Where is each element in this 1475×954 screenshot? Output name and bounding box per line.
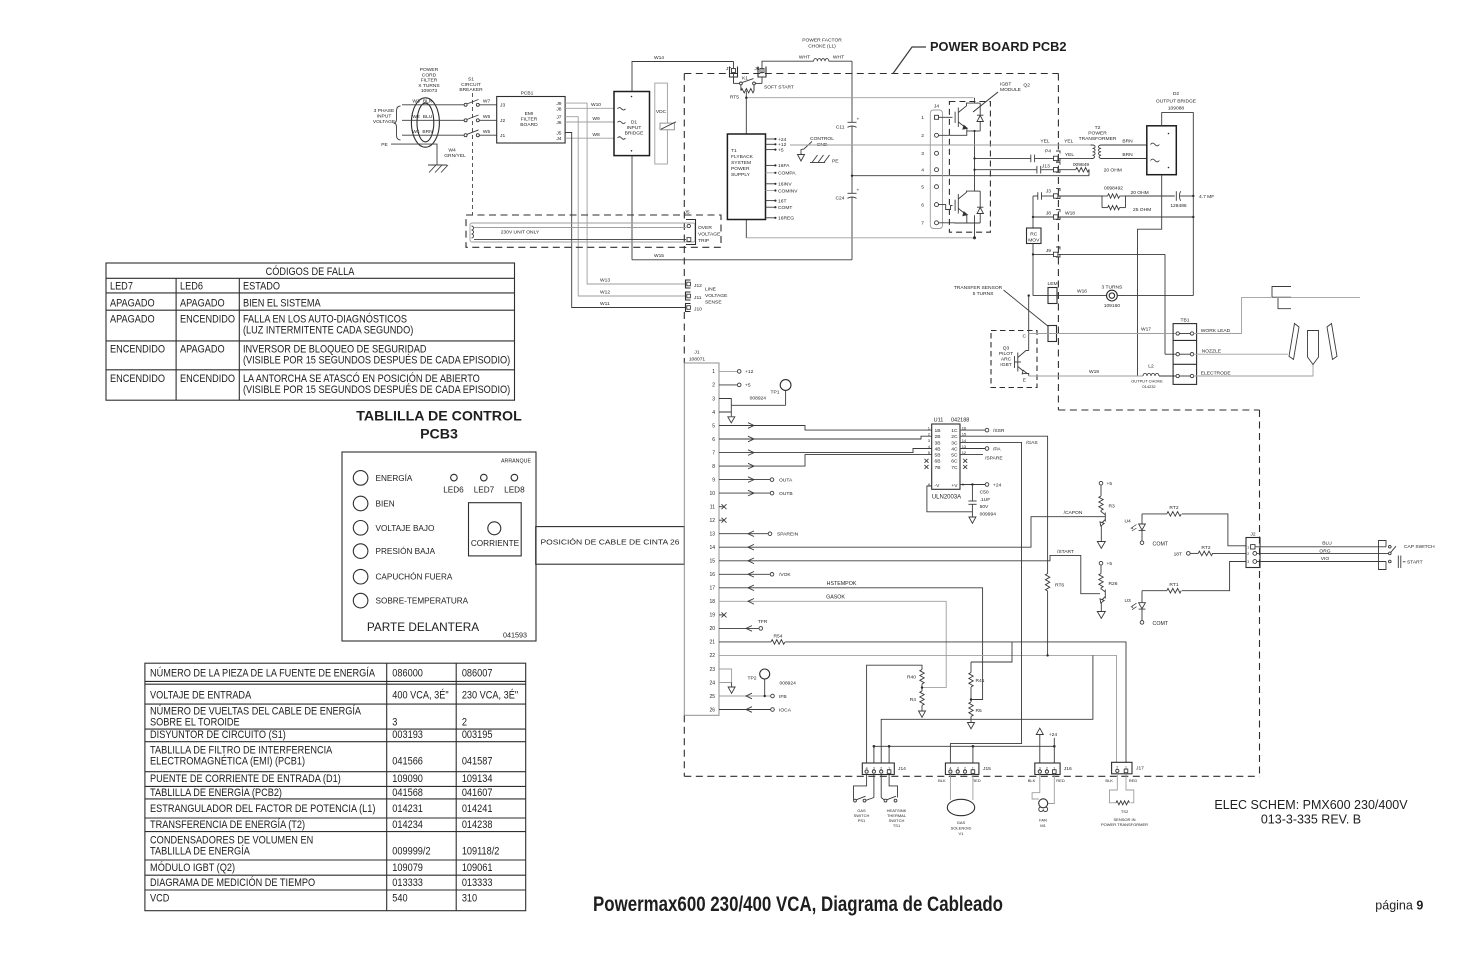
svg-text:VOLTAGE: VOLTAGE: [705, 293, 728, 299]
svg-text:R41: R41: [976, 678, 985, 684]
svg-text:16REG: 16REG: [778, 216, 794, 222]
svg-text:PILOT: PILOT: [999, 351, 1013, 357]
svg-text:GAS: GAS: [957, 820, 966, 825]
svg-text:W8: W8: [592, 132, 600, 138]
J1 pin26 IOCA: [719, 709, 771, 711]
svg-text:PE: PE: [381, 142, 388, 148]
svg-text:009849: 009849: [1073, 162, 1090, 168]
YEL wire T1 aux to T2 primary top: [790, 144, 1091, 146]
svg-text:BLK: BLK: [938, 778, 946, 783]
svg-text:14: 14: [709, 545, 715, 551]
svg-text:VOLTAGE: VOLTAGE: [698, 232, 721, 238]
J1 pin14 /CAPON wire: [719, 517, 1105, 548]
svg-text:IFB: IFB: [779, 694, 787, 700]
svg-text:109134: 109134: [462, 773, 493, 785]
svg-text:J6: J6: [556, 120, 561, 126]
svg-text:RT6: RT6: [1055, 583, 1064, 589]
svg-text:W11: W11: [600, 301, 610, 307]
svg-text:WHT: WHT: [833, 55, 844, 61]
svg-text:C11: C11: [836, 125, 845, 131]
svg-text:T1: T1: [731, 148, 737, 154]
resistor R41: [970, 662, 972, 673]
svg-text:J9: J9: [1046, 248, 1051, 254]
J1 pin11 nc: [719, 506, 723, 508]
torch nozzle left piece: [1289, 324, 1299, 360]
wire J3 row: [1042, 195, 1054, 197]
capacitor C50: [971, 483, 973, 485]
svg-text:COMT: COMT: [1153, 542, 1169, 548]
svg-text:R54: R54: [774, 633, 783, 639]
svg-text:ESTRANGULADOR DEL FACTOR DE PO: ESTRANGULADOR DEL FACTOR DE POTENCIA (L1…: [150, 803, 375, 815]
svg-text:18: 18: [709, 599, 715, 605]
U11 ULN2003A: [925, 418, 970, 501]
svg-text:BIEN EL SISTEMA: BIEN EL SISTEMA: [243, 298, 321, 310]
svg-text:J9: J9: [556, 101, 561, 107]
wire J6 to choke: [762, 61, 814, 73]
svg-text:20 OHM: 20 OHM: [1131, 190, 1149, 196]
svg-text:+5: +5: [778, 147, 784, 153]
svg-text:20: 20: [709, 626, 715, 632]
svg-text:TS1: TS1: [893, 823, 901, 828]
J1 pin7 to U11 4B: [719, 449, 932, 453]
svg-text:S1: S1: [468, 77, 474, 83]
svg-text:VIO: VIO: [1321, 556, 1330, 562]
svg-text:TRANSFER SENSOR: TRANSFER SENSOR: [954, 285, 1003, 291]
svg-text:TP2: TP2: [748, 676, 757, 682]
svg-text:J8: J8: [1046, 211, 1051, 217]
capacitor 128486 4.7 MF: [1176, 191, 1180, 201]
svg-text:25 OHM: 25 OHM: [1133, 207, 1151, 213]
svg-text:086007: 086007: [462, 668, 493, 680]
svg-text:ARC: ARC: [1001, 357, 1012, 363]
svg-text:RC: RC: [1030, 232, 1038, 238]
wire W19: [1029, 375, 1143, 377]
J1 pin8 to U11 5B: [719, 455, 932, 467]
svg-text:109073: 109073: [421, 88, 438, 94]
svg-text:ENCENDIDO: ENCENDIDO: [110, 373, 165, 385]
wire 230V bottom to trip: [474, 239, 686, 241]
wire Q3 collector to W16: [1028, 296, 1030, 351]
svg-text:/VOK: /VOK: [779, 572, 791, 578]
svg-text:SUPPLY: SUPPLY: [731, 172, 751, 178]
+24 bus at bottom: [874, 745, 1054, 747]
J1 pin19 nc: [719, 614, 723, 616]
svg-text:COMPA: COMPA: [778, 171, 796, 177]
svg-text:INPUT: INPUT: [377, 114, 392, 120]
svg-text:D2: D2: [1173, 91, 1180, 97]
J1 pin3/4 gnd + TP1: [719, 399, 731, 413]
gas switch PS1: [854, 775, 874, 802]
connector J15: [945, 763, 991, 775]
svg-text:5 TURNS: 5 TURNS: [973, 291, 995, 297]
svg-text:CORRIENTE: CORRIENTE: [471, 539, 520, 548]
svg-text:OVER: OVER: [698, 225, 712, 231]
svg-text:BLU: BLU: [1322, 540, 1332, 546]
svg-text:MÓDULO IGBT (Q2): MÓDULO IGBT (Q2): [150, 860, 235, 874]
svg-text:DIAGRAMA DE MEDICIÓN DE TIEMPO: DIAGRAMA DE MEDICIÓN DE TIEMPO: [150, 875, 315, 889]
wire W1 BRN: [402, 134, 464, 136]
wire mid to J13 row: [975, 169, 1037, 171]
3 phase input voltage label: [373, 108, 396, 125]
wire J14 pin3 up: [873, 746, 875, 763]
svg-text:APAGADO: APAGADO: [180, 298, 225, 310]
J1 pin10 OUTB: [719, 492, 770, 494]
/CAPON transistor +5: [1099, 481, 1103, 485]
svg-text:086000: 086000: [392, 668, 423, 680]
svg-text:7: 7: [921, 221, 924, 227]
svg-text:+24: +24: [778, 137, 787, 143]
svg-text:014232: 014232: [1142, 384, 1156, 389]
svg-text:Q3: Q3: [1003, 346, 1010, 352]
svg-text:W9: W9: [592, 116, 600, 122]
svg-text:W13: W13: [600, 278, 610, 284]
J4 gate connector: [921, 104, 942, 229]
svg-text:041566: 041566: [392, 756, 423, 768]
svg-text:FILTER: FILTER: [521, 117, 538, 123]
svg-text:+12: +12: [778, 142, 787, 148]
svg-text:8: 8: [712, 464, 715, 470]
svg-text:J10: J10: [694, 307, 702, 313]
svg-text:GRN/YEL: GRN/YEL: [444, 153, 466, 159]
caps midpoint line to J13 resistor: [852, 175, 1089, 177]
svg-text:014234: 014234: [392, 819, 423, 831]
svg-text:+12: +12: [745, 369, 754, 375]
svg-text:2: 2: [712, 383, 715, 389]
svg-text:4.7 MF: 4.7 MF: [1199, 194, 1214, 200]
svg-text:J8: J8: [556, 106, 561, 112]
svg-text:003195: 003195: [462, 729, 493, 741]
svg-text:J14: J14: [898, 766, 906, 772]
svg-text:(VISIBLE POR 15 SEGUNDOS DESPU: (VISIBLE POR 15 SEGUNDOS DESPUÉS DE CADA…: [243, 352, 510, 366]
wire J14 pin2 route: [881, 655, 1093, 763]
resistor R5: [969, 702, 973, 716]
svg-text:DISYUNTOR DE CIRCUITO (S1): DISYUNTOR DE CIRCUITO (S1): [150, 729, 286, 741]
svg-text:W14: W14: [654, 55, 664, 61]
svg-text:ORG: ORG: [1319, 548, 1330, 554]
svg-text:EMI: EMI: [525, 111, 534, 117]
svg-text:17: 17: [709, 586, 715, 592]
resistor RT1: [1142, 590, 1167, 592]
svg-text:18T: 18T: [1174, 551, 1182, 557]
svg-text:J13: J13: [1042, 164, 1050, 170]
svg-text:V1: V1: [959, 831, 965, 836]
svg-text:/START: /START: [1057, 549, 1074, 555]
connector J16: [1035, 763, 1072, 775]
svg-text:/CAPON: /CAPON: [1064, 510, 1083, 516]
svg-text:Q2: Q2: [1023, 83, 1030, 89]
svg-text:D1: D1: [631, 120, 638, 126]
svg-text:BLK: BLK: [1028, 778, 1036, 783]
J1 pin13 SPAREIN: [719, 533, 768, 535]
svg-text:16FA: 16FA: [778, 163, 790, 169]
svg-text:4B: 4B: [935, 446, 941, 452]
svg-text:1B: 1B: [935, 428, 941, 434]
wire W15: [632, 259, 852, 261]
svg-text:19: 19: [709, 613, 715, 619]
svg-text:16T: 16T: [778, 198, 786, 204]
wire W9: [565, 121, 614, 123]
J1 pin2 +5: [719, 384, 737, 386]
svg-text:20 OHM: 20 OHM: [1104, 168, 1122, 174]
svg-text:SYSTEM: SYSTEM: [731, 160, 751, 166]
transistor Q (capon): [1100, 510, 1105, 541]
LED sobre-temperatura: [353, 593, 368, 608]
svg-text:LED6: LED6: [180, 281, 203, 293]
svg-text:POWER: POWER: [1088, 131, 1107, 137]
svg-text:U3: U3: [1125, 598, 1132, 604]
capacitor C24: [836, 189, 860, 202]
svg-text:START: START: [1407, 560, 1423, 566]
control gnd arrow: [798, 155, 805, 162]
svg-text:2B: 2B: [935, 434, 941, 440]
svg-text:R40: R40: [907, 674, 916, 680]
J1 pin20 TFR: [719, 627, 759, 629]
svg-text:16INV: 16INV: [778, 182, 792, 188]
wire W3 BLK: [402, 104, 464, 106]
svg-text:W18: W18: [1065, 211, 1075, 217]
S1 circuit breaker label: [459, 77, 483, 94]
svg-text:/SSR: /SSR: [993, 428, 1005, 434]
svg-text:109118/2: 109118/2: [462, 846, 500, 858]
svg-text:0098492: 0098492: [1104, 186, 1123, 192]
svg-text:1: 1: [1247, 545, 1249, 549]
wire W18: [1033, 216, 1193, 218]
J1 pin23/24 gnd: [719, 669, 732, 683]
svg-text:POWER TRANSFORMER: POWER TRANSFORMER: [1101, 822, 1148, 827]
svg-text:ENERGÍA: ENERGÍA: [376, 473, 413, 483]
wire mid rail to T2 primary return: [975, 157, 1031, 159]
svg-text:C24: C24: [836, 196, 845, 202]
svg-text:+5: +5: [1107, 481, 1113, 487]
svg-text:6: 6: [921, 202, 924, 208]
svg-text:041587: 041587: [462, 756, 493, 768]
svg-text:128486: 128486: [1170, 203, 1187, 209]
series capacitor on T2 drive: [1031, 155, 1035, 163]
svg-text:C50: C50: [980, 490, 989, 496]
wire W17: [1029, 333, 1176, 335]
svg-text:PE: PE: [832, 159, 839, 165]
svg-text:3B: 3B: [935, 440, 941, 446]
svg-text:2: 2: [1247, 552, 1249, 556]
svg-text:INPUT: INPUT: [627, 125, 642, 131]
svg-text:BLK: BLK: [1105, 778, 1113, 783]
svg-text:J12: J12: [694, 283, 702, 289]
svg-text:6: 6: [712, 437, 715, 443]
svg-text:BLK: BLK: [423, 98, 433, 104]
svg-text:L2: L2: [1148, 364, 1154, 370]
svg-text:230V UNIT ONLY: 230V UNIT ONLY: [501, 230, 540, 236]
svg-text:+V: +V: [951, 483, 958, 489]
svg-text:RT2: RT2: [1169, 505, 1178, 511]
breaker dashed tie line: [471, 93, 473, 215]
svg-text:R4: R4: [910, 697, 917, 703]
svg-text:LED8: LED8: [504, 486, 525, 495]
svg-text:OUTPUT CHOKE: OUTPUT CHOKE: [1131, 379, 1163, 384]
svg-text:ESTADO: ESTADO: [243, 281, 280, 293]
RC MOV: [1027, 228, 1042, 244]
svg-text:4C: 4C: [951, 446, 958, 452]
over voltage trip connector J5: [684, 210, 695, 245]
heatsink thermal switch TS1: [881, 775, 897, 802]
svg-text:MODULE: MODULE: [1000, 87, 1022, 93]
svg-text:CHOKE (L1): CHOKE (L1): [808, 44, 836, 50]
ribbon cable note box: [536, 527, 685, 565]
U11 2C wire to RT6 line: [960, 436, 1048, 573]
svg-text:R3: R3: [1109, 504, 1116, 510]
LED6 LED7 LED8: [451, 474, 458, 481]
svg-text:J2: J2: [500, 118, 505, 124]
svg-text:CORD: CORD: [422, 72, 437, 78]
Q3 pilot arc IGBT dashed box: [991, 331, 1037, 388]
svg-text:540: 540: [392, 893, 408, 905]
svg-text:6B: 6B: [935, 459, 941, 465]
J1 pin5 to U11 1B: [719, 426, 932, 431]
svg-text:014241: 014241: [462, 803, 493, 815]
svg-text:IGBT: IGBT: [1000, 82, 1011, 88]
svg-text:OUTPUT BRIDGE: OUTPUT BRIDGE: [1156, 99, 1197, 105]
svg-text:+: +: [857, 189, 860, 194]
upper IGBT Q2a: [939, 98, 984, 131]
PE hatched ground: [810, 155, 830, 163]
svg-text:7: 7: [712, 450, 715, 456]
wire nozzle lead: [1194, 353, 1288, 355]
svg-text:J1: J1: [694, 350, 699, 356]
D2 output bridge: [1147, 126, 1177, 175]
wire electrode lead: [1194, 365, 1313, 377]
svg-text:5B: 5B: [935, 453, 941, 459]
svg-text:109160: 109160: [1104, 303, 1121, 309]
wire work lead to clamp: [1194, 298, 1271, 334]
svg-text:U4: U4: [1125, 519, 1132, 525]
svg-text:4: 4: [712, 410, 715, 416]
svg-text:OUTB: OUTB: [779, 491, 793, 497]
D1 input bridge: [614, 92, 650, 156]
svg-text:BLU: BLU: [423, 114, 433, 120]
svg-text:LEM: LEM: [1047, 281, 1057, 287]
svg-text:FALLA EN LOS AUTO-DIAGNÓSTICOS: FALLA EN LOS AUTO-DIAGNÓSTICOS: [243, 312, 407, 326]
svg-text:LA ANTORCHA SE ATASCÓ EN POSIC: LA ANTORCHA SE ATASCÓ EN POSICIÓN DE ABI…: [243, 371, 480, 385]
svg-text:HSTEMPOK: HSTEMPOK: [827, 581, 857, 587]
svg-text:3: 3: [921, 151, 924, 157]
power cord filter label: [418, 67, 440, 94]
svg-text:TS2: TS2: [1121, 809, 1129, 814]
svg-text:13: 13: [709, 532, 715, 538]
svg-text:109088: 109088: [1168, 106, 1185, 112]
power factor choke L1: [799, 38, 844, 62]
svg-text:COMINV: COMINV: [778, 188, 798, 194]
svg-text:TFR: TFR: [758, 619, 768, 625]
svg-text:+24: +24: [1049, 732, 1058, 738]
svg-text:3: 3: [392, 717, 397, 729]
J1 pin16 /VOK: [719, 573, 770, 575]
svg-text:2: 2: [921, 133, 924, 139]
J1 pin9 OUTA: [719, 479, 770, 481]
svg-text:TP1: TP1: [771, 390, 780, 396]
LED capuchon fuera: [353, 569, 368, 584]
svg-text:+5: +5: [1107, 561, 1113, 567]
svg-text:FLYBACK: FLYBACK: [731, 154, 754, 160]
sensor TS2: [1110, 774, 1134, 803]
svg-text:009994: 009994: [980, 511, 997, 517]
svg-text:013-3-335 REV. B: 013-3-335 REV. B: [1261, 813, 1361, 827]
svg-text:W4: W4: [448, 148, 456, 154]
svg-text:230 VCA, 3É": 230 VCA, 3É": [462, 688, 519, 702]
svg-text:BRN: BRN: [422, 129, 433, 135]
svg-text:TRANSFERENCIA DE ENERGÍA (T2): TRANSFERENCIA DE ENERGÍA (T2): [150, 817, 305, 831]
svg-text:LINE: LINE: [705, 287, 717, 293]
soft start resistor RT5: [730, 85, 754, 101]
svg-text:BIEN: BIEN: [376, 500, 395, 509]
svg-text:22: 22: [709, 653, 715, 659]
svg-text:/SPARE: /SPARE: [985, 455, 1003, 461]
svg-text:W6: W6: [483, 114, 491, 120]
svg-text:BRIDGE: BRIDGE: [625, 131, 644, 137]
T1 flyback system power supply: [727, 134, 765, 220]
svg-text:J7: J7: [556, 115, 561, 121]
svg-text:2C: 2C: [951, 434, 958, 440]
svg-text:J17: J17: [1136, 765, 1144, 771]
wire J14 pin1 up: [888, 746, 890, 763]
svg-text:109061: 109061: [462, 862, 493, 874]
svg-text:J1: J1: [500, 133, 505, 139]
svg-text:J16: J16: [1064, 766, 1072, 772]
J1 pin12 nc: [719, 519, 723, 521]
PCB2 dashed boundary: [684, 74, 1259, 777]
test point TP1: [780, 380, 791, 391]
wire ORG: [1257, 552, 1390, 554]
svg-text:16: 16: [709, 572, 715, 578]
svg-text:Powermax600 230/400 VCA, Diagr: Powermax600 230/400 VCA, Diagrama de Cab…: [593, 893, 1003, 916]
svg-text:3 TURNS: 3 TURNS: [1101, 285, 1123, 291]
svg-text:POWER: POWER: [420, 67, 439, 73]
svg-text:ARRANQUE: ARRANQUE: [501, 459, 531, 465]
svg-text:YEL: YEL: [1065, 152, 1075, 158]
svg-text:CAPUCHÓN FUERA: CAPUCHÓN FUERA: [376, 572, 453, 582]
wire J9 row to nozzle: [1033, 253, 1165, 255]
ground symbol W4 GRN/YEL: [428, 165, 448, 173]
svg-text:P4: P4: [1045, 149, 1051, 155]
LED bien: [353, 496, 368, 511]
svg-text:W2: W2: [412, 114, 420, 120]
svg-text:013333: 013333: [392, 877, 423, 889]
svg-text:11: 11: [710, 505, 715, 511]
transfer sensor body: [1048, 326, 1057, 342]
svg-text:014238: 014238: [462, 819, 493, 831]
svg-text:W7: W7: [483, 98, 491, 104]
J1 pin18 GASOK wire: [719, 601, 946, 687]
svg-text:TABLILLA DE ENERGÍA (PCB2): TABLILLA DE ENERGÍA (PCB2): [150, 785, 282, 799]
breaker pole wire 2: [464, 115, 497, 122]
svg-text:041593: 041593: [503, 630, 527, 639]
svg-text:COMT: COMT: [778, 205, 792, 211]
parts number table: [145, 663, 526, 911]
svg-text:J11: J11: [694, 295, 702, 301]
svg-text:-V: -V: [935, 483, 941, 489]
svg-text:2: 2: [462, 717, 467, 729]
J1 pin15 /START wire: [719, 555, 1100, 593]
wire choke to +rail: [829, 60, 852, 62]
PCB1 EMI filter board: [497, 91, 565, 144]
wire W16: [1033, 295, 1107, 297]
svg-text:013333: 013333: [462, 877, 493, 889]
svg-text:OUTA: OUTA: [779, 477, 793, 483]
svg-text:BREAKER: BREAKER: [459, 87, 483, 93]
LED energia: [353, 471, 368, 486]
svg-text:SOBRE-TEMPERATURA: SOBRE-TEMPERATURA: [376, 597, 469, 606]
svg-text:APAGADO: APAGADO: [110, 314, 155, 326]
svg-text:W1: W1: [412, 129, 420, 135]
svg-text:7B: 7B: [935, 465, 941, 471]
